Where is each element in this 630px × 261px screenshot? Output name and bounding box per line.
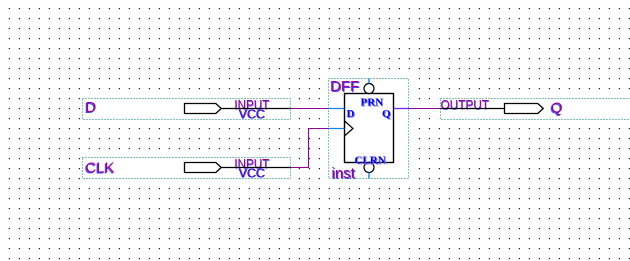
pin name label CLK (85, 160, 115, 178)
input pin CLK selection box (81, 156, 292, 180)
INPUT label (D pin) (234, 97, 270, 113)
DFF PRN stub (blue tick) (368, 79, 370, 84)
DFF CLRN bubble (364, 163, 374, 173)
DFF type label (330, 78, 360, 96)
wire: D net into DFF (blue segment) (329, 108, 345, 110)
wire: CLK net into DFF clock (blue segment) (329, 128, 345, 130)
svg-text:CLRN: CLRN (355, 155, 386, 167)
svg-text:OUTPUT: OUTPUT (441, 97, 490, 112)
pin name label Q (550, 100, 563, 118)
svg-text:D: D (347, 108, 355, 120)
inst name label (332, 165, 357, 183)
VCC label (D pin) (239, 107, 266, 122)
wire: Q output lead (black segment) (441, 108, 505, 110)
OUTPUT label (Q pin) (441, 97, 490, 113)
INPUT label (CLK pin) (234, 156, 270, 172)
wire: CLK input lead (black segment) (221, 167, 291, 169)
input pin D selection box (81, 97, 292, 121)
wire: D input lead (black segment) (221, 108, 291, 110)
DFF PRN bubble (364, 84, 374, 94)
wire: Q net (magenta segment) (409, 108, 441, 110)
DFF port label Q (382, 108, 392, 121)
DFF port label CLRN (355, 155, 387, 168)
output pin symbol (Q) (505, 104, 544, 114)
svg-text:inst: inst (332, 165, 356, 182)
DFF clock triangle (345, 121, 354, 136)
svg-text:DFF: DFF (330, 78, 359, 95)
DFF CLRN stub (blue tick) (368, 173, 370, 179)
DFF U1 body rectangle (345, 94, 394, 163)
svg-text:D: D (86, 99, 97, 116)
input pin symbol (D) (185, 104, 222, 114)
output pin Q selection box (439, 97, 630, 121)
wire: Q net inside DFF box (violet segment) (394, 108, 409, 110)
DFF U1 selection box (327, 77, 410, 180)
wire: D net (magenta segment) (291, 108, 329, 110)
pin name label D (85, 99, 97, 117)
VCC label (CLK pin) (239, 166, 266, 181)
svg-text:Q: Q (382, 108, 391, 120)
wire: CLK net (magenta segments with corner) (291, 129, 329, 168)
DFF port label PRN (361, 97, 385, 110)
svg-text:PRN: PRN (361, 97, 384, 109)
svg-text:Q: Q (551, 100, 563, 117)
svg-text:CLK: CLK (86, 160, 115, 177)
input pin symbol (CLK) (185, 163, 222, 173)
DFF port label D (347, 108, 356, 121)
